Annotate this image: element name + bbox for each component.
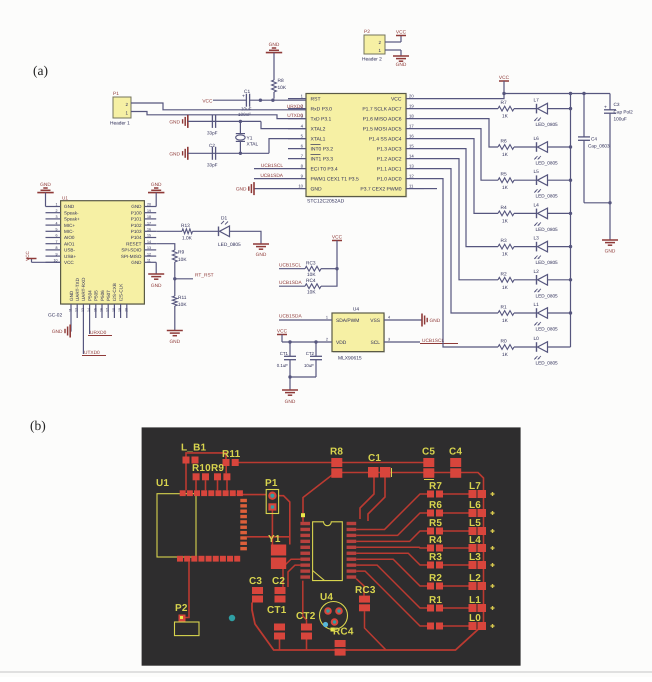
PCB trace R0 to L0 (443, 625, 469, 627)
svg-text:INT1 P3.3: INT1 P3.3 (311, 156, 334, 162)
PCB text RC3 (355, 585, 376, 596)
svg-text:VCC: VCC (277, 328, 288, 334)
svg-text:(b): (b) (30, 418, 46, 433)
PCB trace R8 to DIP (303, 475, 332, 522)
svg-text:L0: L0 (534, 336, 540, 342)
svg-text:L5: L5 (534, 169, 540, 175)
svg-text:P104: P104 (131, 235, 142, 240)
ground left of C3 33pF cap (169, 115, 187, 128)
PCB trace R3 to L3 (443, 564, 469, 566)
junction dot bus row L1 (569, 311, 572, 314)
PCB text C4 (449, 447, 462, 458)
wire C1 to pin1 RST (250, 99, 306, 101)
PCB marker U4 (331, 628, 335, 632)
svg-text:C1: C1 (368, 453, 381, 464)
PCB trace DIP to CT2 (303, 581, 307, 624)
resistor R2 1K (498, 271, 514, 291)
svg-text:CT1: CT1 (267, 605, 287, 616)
power VCC top of LED array (499, 75, 510, 94)
svg-text:SCL: SCL (370, 340, 380, 346)
svg-text:AIO1: AIO1 (64, 241, 75, 246)
svg-text:RC4: RC4 (306, 278, 316, 284)
PCB text C2 (272, 576, 285, 587)
wire R2 to L2 (514, 279, 537, 281)
wire L6 to bus (548, 146, 571, 148)
svg-text:2: 2 (56, 209, 58, 213)
PCB text L4 (469, 535, 481, 546)
wire R3 to L3 (514, 246, 537, 248)
PCB pads C1 (368, 467, 392, 478)
svg-text:CT1: CT1 (280, 351, 289, 356)
svg-text:P103: P103 (131, 229, 142, 234)
svg-text:17: 17 (409, 123, 414, 128)
svg-text:L_B1: L_B1 (181, 443, 206, 454)
wire L4 to bus (548, 212, 571, 214)
PCB text C3 (249, 576, 262, 587)
PCB trace RC3 to DIP (356, 579, 364, 596)
svg-text:L7: L7 (534, 98, 540, 104)
svg-text:UCB1SCL: UCB1SCL (261, 163, 283, 169)
svg-text:Speak-: Speak- (64, 210, 79, 215)
svg-text:GND: GND (151, 182, 162, 188)
svg-text:L7: L7 (469, 481, 481, 492)
LED L0 LED_0805 (534, 336, 559, 366)
wire pin13 to R1 (424, 169, 498, 313)
svg-text:UART-TXD: UART-TXD (75, 277, 80, 301)
PCB text L5 (469, 518, 481, 529)
ground right of D1 (253, 244, 269, 258)
svg-text:L1: L1 (534, 302, 540, 308)
PCB trace P1 to Y1 (271, 511, 273, 545)
svg-text:U4: U4 (353, 307, 359, 313)
svg-text:SPI-SDIO: SPI-SDIO (121, 248, 142, 253)
crystal Y1 XTAL (236, 121, 259, 153)
svg-text:U1: U1 (62, 196, 68, 201)
net label UTXD0 at pin3 (287, 113, 303, 119)
svg-text:1: 1 (326, 316, 328, 320)
LED D1 LED_0805 (218, 216, 241, 249)
PCB trace DIP left to C3 (283, 559, 300, 587)
PCB trace R2 to L2 (443, 585, 469, 587)
PCB trace R6 to L6 (443, 512, 469, 514)
svg-text:14: 14 (409, 153, 414, 158)
svg-text:GND: GND (169, 119, 180, 125)
svg-text:19: 19 (147, 209, 151, 213)
PCB text R7 (429, 481, 442, 492)
PCB trace U1 bottom to P2 (186, 562, 190, 618)
PCB trace top net3 C4 to LED anodes (337, 473, 484, 627)
svg-text:5: 5 (56, 228, 58, 232)
sideways ground at U4 VSS (422, 314, 441, 327)
svg-text:15: 15 (409, 143, 414, 148)
wire P103 to R13 (156, 230, 182, 232)
svg-text:P100: P100 (131, 210, 142, 215)
resistor R8 10K (272, 78, 287, 92)
PCB pads R0 (427, 623, 443, 630)
svg-text:RC3: RC3 (355, 585, 376, 596)
svg-text:SPI-MISO: SPI-MISO (121, 254, 142, 259)
PCB outline U1 (157, 494, 196, 557)
svg-text:R11: R11 (178, 295, 187, 301)
svg-text:UTXD0: UTXD0 (287, 113, 303, 119)
svg-text:GND: GND (236, 187, 247, 193)
PCB pads R10 (193, 473, 209, 480)
PCB text R8 (330, 447, 343, 458)
svg-text:12: 12 (75, 308, 79, 312)
svg-text:P3.7 CEX2 PWM0: P3.7 CEX2 PWM0 (360, 186, 401, 192)
svg-text:I2S-CLK: I2S-CLK (118, 283, 123, 301)
junction dot bus row L6 (569, 145, 572, 148)
svg-text:VSS: VSS (370, 318, 381, 324)
svg-text:R2: R2 (429, 573, 442, 584)
svg-text:UTXD0: UTXD0 (84, 350, 100, 356)
svg-text:14: 14 (87, 308, 91, 312)
wire C4 to C3 bottom (584, 201, 612, 204)
svg-text:AIO0: AIO0 (64, 235, 75, 240)
PCB pad P2 (179, 615, 186, 623)
svg-text:P1.6 MISO ADC6: P1.6 MISO ADC6 (363, 116, 402, 122)
ground LED array (602, 240, 618, 255)
svg-text:C1: C1 (244, 89, 250, 95)
svg-text:Header 2: Header 2 (362, 57, 382, 63)
net label URXD0 at pin2 (287, 104, 304, 110)
svg-text:6: 6 (56, 234, 58, 238)
net label VCC at RST line (202, 98, 213, 104)
wire pin20 to VCC bus (424, 92, 506, 99)
ground below CT1 (282, 390, 298, 405)
PCB trace L_B1 down (185, 464, 187, 491)
svg-text:16: 16 (100, 308, 104, 312)
module U1 GC-02 (46, 196, 157, 319)
svg-text:15: 15 (147, 234, 151, 238)
resistor R5 1K (498, 172, 514, 192)
PCB trace C1 down (368, 478, 385, 522)
figure label (a) (33, 63, 48, 78)
ground above U1 right (148, 182, 164, 206)
net label UCB1SCL at RC3 (279, 262, 301, 268)
svg-text:UCB1SDA: UCB1SDA (279, 314, 302, 320)
wire R4 to L4 (514, 212, 537, 214)
svg-text:LED_0805: LED_0805 (536, 194, 559, 199)
svg-text:LED_0805: LED_0805 (536, 227, 559, 232)
svg-text:Y1: Y1 (247, 136, 253, 142)
PCB text L_B1 (181, 443, 206, 454)
PCB trace P1 to Y1 via right (279, 496, 290, 545)
svg-text:GND: GND (131, 260, 142, 265)
svg-text:C2: C2 (209, 143, 215, 148)
wire GND to R8 (273, 53, 275, 80)
svg-text:10K: 10K (178, 257, 187, 263)
svg-text:17: 17 (106, 308, 110, 312)
svg-text:I2S-CXB: I2S-CXB (112, 283, 117, 301)
PCB text U4 (320, 592, 333, 603)
wire RESET pin to R9 (156, 244, 175, 250)
svg-text:VCC: VCC (391, 96, 402, 102)
PCB trace bottom loop (252, 603, 481, 651)
PCB text U1 (156, 478, 169, 489)
net label UTXD0 (82, 350, 106, 356)
wire R9 to junction (174, 262, 176, 296)
svg-text:XTAL: XTAL (247, 142, 259, 148)
wire R5 to L5 (514, 179, 537, 181)
PCB text L6 (469, 500, 481, 511)
svg-text:P2: P2 (364, 29, 370, 35)
svg-text:P1.3 ADC3: P1.3 ADC3 (377, 146, 402, 152)
PCB outline P2 (175, 622, 200, 636)
svg-text:GND: GND (430, 318, 441, 324)
resistor R1 1K (498, 305, 514, 325)
sensor U4 MLX90615 (332, 307, 385, 362)
wire VCC to C1 (213, 99, 246, 101)
svg-text:12: 12 (147, 252, 151, 256)
PCB text Y1 (268, 534, 281, 545)
svg-text:RST: RST (311, 96, 321, 102)
capacitor 33pF top (207, 115, 218, 136)
PCB pads C4 (450, 458, 461, 478)
svg-text:P1.4 SS ADC4: P1.4 SS ADC4 (369, 136, 402, 142)
svg-text:R2: R2 (501, 271, 507, 277)
svg-text:0.1uF: 0.1uF (277, 363, 289, 368)
PCB pads R8 (331, 458, 342, 478)
PCB text R6 (429, 500, 442, 511)
svg-text:16: 16 (409, 133, 414, 138)
ground below U1 right pin GND (148, 262, 164, 289)
PCB trace R7 to L7 (443, 493, 469, 495)
svg-text:18: 18 (112, 308, 116, 312)
svg-text:3: 3 (388, 338, 390, 342)
resistor R6 1K (498, 139, 514, 159)
svg-text:GND: GND (52, 329, 63, 335)
sideways ground at U1 bottom (52, 325, 70, 338)
svg-text:P1.2 ADC2: P1.2 ADC2 (377, 156, 402, 162)
junction dot bus row L2 (569, 278, 572, 281)
ground at pin10 of U2 (236, 182, 288, 195)
svg-text:Cap_0603: Cap_0603 (588, 144, 610, 149)
wire R0 to L0 (514, 346, 537, 348)
PCB text RC4 (333, 627, 354, 638)
wire pin16 to R4 (424, 139, 498, 214)
wire L2 to bus (548, 279, 571, 281)
svg-text:P1: P1 (265, 478, 278, 489)
PCB pads C3 (252, 587, 263, 603)
PCB pads U1 top row (180, 490, 243, 496)
PCB text R4 (429, 535, 442, 546)
wire pin11 stub (424, 188, 437, 190)
svg-text:P507: P507 (106, 290, 111, 301)
svg-text:R3: R3 (429, 552, 442, 563)
PCB pads C5 (423, 458, 434, 480)
svg-text:19: 19 (409, 103, 414, 108)
svg-text:20: 20 (409, 93, 414, 98)
capacitor CT1 0.1uF (277, 342, 296, 377)
svg-text:LED_0805: LED_0805 (536, 293, 559, 298)
svg-text:C3: C3 (249, 576, 262, 587)
wire pin15 to R3 (424, 149, 498, 247)
svg-text:XTAL1: XTAL1 (311, 136, 326, 142)
svg-text:17: 17 (147, 221, 151, 225)
svg-text:L0: L0 (469, 613, 481, 624)
svg-text:UCB1SDA: UCB1SDA (260, 173, 283, 179)
PCB pads R5 (427, 528, 443, 535)
svg-text:VCC: VCC (332, 234, 343, 240)
resistor R4 1K (498, 205, 514, 225)
wire and resistor RC4 10K (279, 269, 337, 296)
svg-text:ECI T0 P3.4: ECI T0 P3.4 (311, 166, 338, 172)
svg-text:R4: R4 (429, 535, 442, 546)
top VCC bus wire (504, 93, 610, 95)
svg-text:11: 11 (69, 308, 73, 312)
svg-text:1K: 1K (502, 285, 509, 291)
svg-text:R11: R11 (222, 449, 241, 460)
svg-text:INT0 P3.2: INT0 P3.2 (311, 146, 334, 152)
svg-text:13: 13 (81, 308, 85, 312)
svg-text:R3: R3 (501, 238, 507, 244)
PCB text L0 (469, 613, 481, 624)
PCB trace RC4 down (339, 650, 341, 656)
svg-text:Cap Pol2: Cap Pol2 (614, 110, 634, 115)
LED L2 LED_0805 (534, 269, 559, 299)
PCB trace CT to loop (280, 640, 307, 651)
LED L7 LED_0805 (534, 98, 559, 128)
svg-text:2: 2 (326, 338, 328, 342)
svg-text:10uF: 10uF (304, 363, 314, 368)
net label UCB1SCL at pin8 (254, 163, 288, 169)
svg-text:1K: 1K (502, 352, 509, 358)
junction dot CT2 (314, 340, 317, 343)
svg-text:URXD0: URXD0 (90, 330, 107, 336)
svg-text:R13: R13 (181, 223, 190, 229)
ground above R8 (266, 42, 282, 52)
power VCC at U1 left (25, 250, 61, 262)
wire UART-TXD down (82, 318, 84, 354)
svg-text:VDD: VDD (336, 340, 347, 346)
svg-text:L4: L4 (534, 202, 540, 208)
svg-text:RxD P3.0: RxD P3.0 (311, 106, 333, 112)
net label UCB1SDA at RC4 (279, 280, 302, 286)
PCB pads L6 (469, 509, 495, 517)
svg-text:R7: R7 (429, 481, 442, 492)
PCB pads L_B1 (183, 457, 199, 464)
wire crystal top to XTAL2 pin4 (261, 121, 306, 128)
PCB pads U3 right pins (347, 522, 357, 579)
PCB trace R10 R9 down (196, 480, 227, 490)
net label URXD0 (88, 330, 112, 336)
svg-text:14: 14 (147, 240, 151, 244)
ground below R11 (167, 331, 183, 346)
svg-text:L4: L4 (469, 535, 481, 546)
svg-text:GND: GND (40, 182, 51, 188)
svg-text:MIC+: MIC+ (64, 223, 75, 228)
svg-text:LED_0805: LED_0805 (536, 260, 559, 265)
PCB pads R4 (427, 545, 443, 552)
svg-text:R6: R6 (501, 139, 507, 145)
svg-text:P102: P102 (131, 223, 142, 228)
PCB text CT1 (267, 605, 287, 616)
svg-text:R1: R1 (429, 595, 442, 606)
resistor R0 1K (498, 339, 514, 359)
svg-text:12: 12 (409, 173, 414, 178)
svg-text:UART-RXD: UART-RXD (81, 277, 86, 301)
figure label (b) (30, 418, 46, 433)
LED L1 LED_0805 (534, 302, 559, 332)
svg-text:GND: GND (64, 204, 75, 209)
svg-text:USB+: USB+ (64, 254, 76, 259)
svg-text:P506: P506 (100, 290, 105, 301)
svg-text:L5: L5 (469, 518, 481, 529)
svg-text:P1.1 ADC1: P1.1 ADC1 (377, 166, 402, 172)
power VCC above pullups (332, 234, 343, 268)
svg-text:P1.0 ADC0: P1.0 ADC0 (377, 176, 402, 182)
resistor R11 10K (172, 295, 187, 308)
svg-text:P505: P505 (94, 290, 99, 301)
svg-text:10K: 10K (278, 85, 287, 91)
wire L1 to bus (548, 312, 571, 314)
svg-text:1.0K: 1.0K (182, 236, 193, 242)
net label UCB1SCL at U4 SCL (420, 338, 458, 344)
wire R11 to GND (174, 306, 176, 331)
wire U1 bottom GND pin (69, 318, 72, 331)
svg-text:MLX90615: MLX90615 (338, 356, 362, 362)
PCB pads RC4 (335, 640, 346, 656)
PCB trace top net2 (236, 462, 429, 464)
svg-text:15: 15 (93, 308, 97, 312)
wire pin12 to R0 (424, 179, 498, 347)
net label UCB1SDA at U4 pin1 (279, 314, 302, 320)
svg-text:TxD P3.1: TxD P3.1 (311, 116, 332, 122)
PCB text L2 (469, 573, 481, 584)
svg-text:100uF: 100uF (614, 117, 627, 122)
svg-text:L3: L3 (469, 552, 481, 563)
svg-text:+: + (242, 94, 245, 100)
PCB text R10R9 (192, 463, 224, 474)
svg-text:20: 20 (147, 203, 151, 207)
PCB text P2 (175, 603, 188, 614)
PCB text R3 (429, 552, 442, 563)
svg-text:RESET: RESET (126, 241, 142, 246)
PCB marker pin1 U3 (301, 513, 305, 517)
PCB text L3 (469, 552, 481, 563)
svg-text:13: 13 (147, 246, 151, 250)
wire D1 to GND (230, 231, 262, 244)
PCB trace R4 to L4 (443, 547, 469, 549)
svg-text:CT2: CT2 (306, 351, 315, 356)
svg-text:C3: C3 (614, 102, 620, 107)
junction dot bus row L5 (569, 179, 572, 182)
separator line bottom (0, 671, 652, 673)
svg-text:VCC: VCC (202, 98, 213, 104)
wire gnd to crystal bottom node (188, 152, 269, 154)
svg-text:10: 10 (298, 183, 303, 188)
svg-text:UCB1SCL: UCB1SCL (422, 338, 444, 344)
svg-text:1: 1 (56, 203, 58, 207)
svg-text:13: 13 (409, 163, 414, 168)
capacitor C2 33pF bottom (207, 143, 218, 168)
svg-text:16: 16 (147, 228, 151, 232)
PCB trace U1 to Y1 (247, 536, 290, 538)
wire UCB1SDA to pin1 (279, 316, 332, 321)
PCB pads U1 right column (240, 499, 247, 551)
svg-text:R4: R4 (501, 205, 507, 211)
PCB pads R7 (427, 491, 443, 498)
PCB pads L2 (469, 582, 495, 590)
PCB text L1 (469, 595, 481, 606)
PCB text R2 (429, 573, 442, 584)
svg-text:L3: L3 (534, 236, 540, 242)
net label UCB1SDA at pin9 (254, 173, 288, 179)
svg-text:GND: GND (169, 339, 180, 345)
svg-text:D1: D1 (221, 216, 227, 222)
PCB pads R6 (427, 510, 443, 517)
